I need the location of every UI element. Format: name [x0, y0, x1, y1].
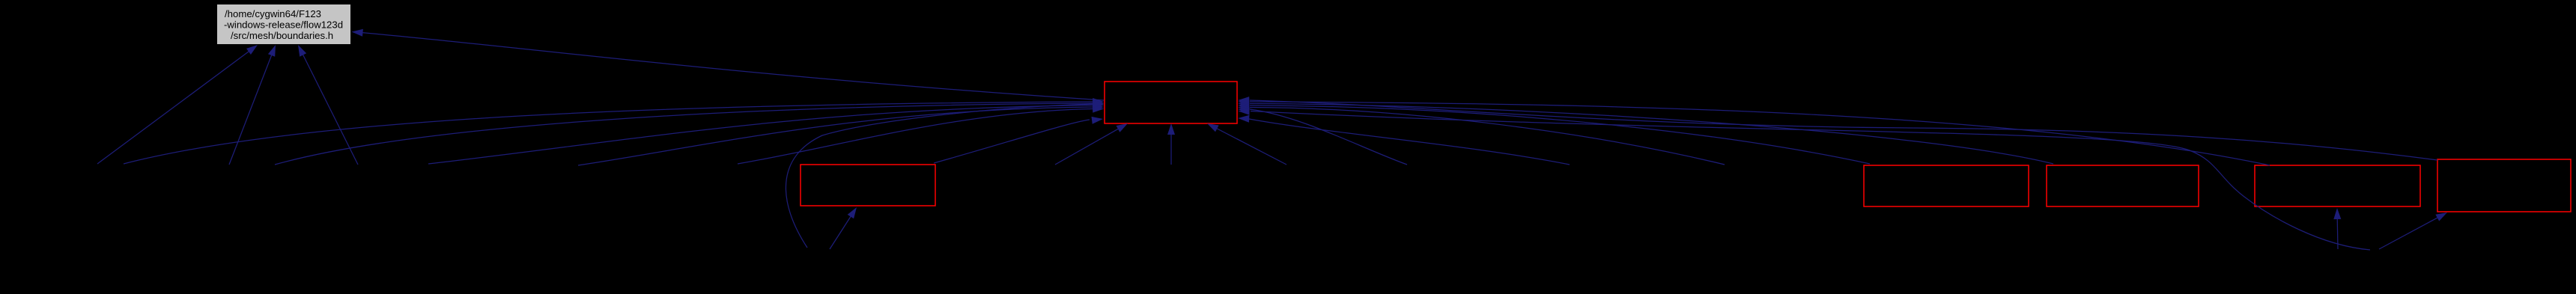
edge node x1564 to M bottom (vertical): [1167, 123, 1175, 165]
node B (red truncated box, right row): [2047, 165, 2199, 206]
svg-text:-windows-release/flow123d: -windows-release/flow123d: [224, 19, 343, 30]
edge D to M right: [1238, 97, 2437, 160]
edge node x1409 to M bottom: [1055, 123, 1128, 165]
edge bottom-right node to M (long curve through B-C gap): [1239, 108, 2371, 250]
edge node x985 to M (near straight): [738, 105, 1104, 164]
edge node x2096 to M (arrow into M lower-right): [1238, 115, 1570, 165]
svg-text:/home/cygwin64/F123: /home/cygwin64/F123: [225, 8, 321, 19]
edge n1 to root (arrow up-right into root bottom): [97, 45, 258, 164]
edge M to root (long arrow into root right edge): [352, 29, 1105, 100]
edge bottom-right node to D (arrow into D bottom-left): [2379, 212, 2447, 249]
edge n2 to root (steep arrow into root bottom): [229, 45, 276, 165]
node root /src/mesh/boundaries.h (gray box): [217, 4, 350, 44]
node M center (red truncated box): [1105, 82, 1237, 123]
edge node x367 to M (shallow curve): [275, 99, 1104, 165]
edge C to M right: [1238, 98, 2270, 165]
edge node x2303 to M right: [1238, 104, 1725, 165]
edge bottom-right node to C (vertical arrow into C bottom): [2333, 208, 2341, 249]
edge A to M right: [1238, 102, 1870, 164]
edge node x1718 to M bottom: [1207, 123, 1287, 165]
edge B to M right: [1238, 100, 2053, 165]
node C (red truncated box, right row): [2255, 165, 2420, 206]
edge node x572 to M (shallow curve): [428, 102, 1104, 165]
edge far-left node to M (shallow curve): [124, 98, 1104, 164]
edge bottom-left node to M (big C sweep around L): [786, 100, 1104, 248]
node A (red truncated box, right row): [1864, 165, 2029, 206]
edge L to M (arrow into M lower-left): [934, 117, 1103, 163]
edge node x1879 to M right: [1238, 105, 1407, 165]
node D (red truncated box, far right): [2437, 159, 2571, 212]
edge n3 to root (arrow up-left into root bottom): [298, 45, 358, 165]
node L (red truncated box, lower-left): [801, 165, 935, 206]
edge bottom-left node to L (arrow into L bottom): [830, 207, 857, 249]
svg-text:/src/mesh/boundaries.h: /src/mesh/boundaries.h: [231, 30, 333, 41]
edge node x772 to M (shallow curve): [578, 103, 1104, 165]
